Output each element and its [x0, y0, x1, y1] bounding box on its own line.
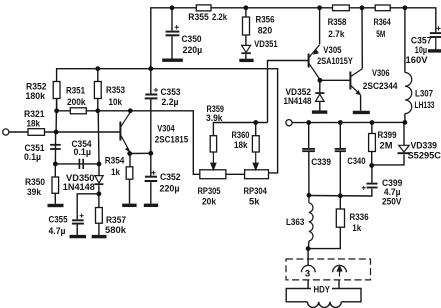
- wire R336 bottom to L363 bottom: [308, 227, 340, 248]
- HDY pin 3 arc: [301, 265, 315, 272]
- wire C399 top lead: [371, 165, 373, 182]
- svg-text:C339: C339: [311, 157, 331, 168]
- svg-text:39k: 39k: [27, 187, 42, 198]
- wire bias rail y=68.7: [57, 69, 278, 173]
- wire flyback row y=122.4: [292, 121, 405, 123]
- diode VD351: [241, 45, 251, 53]
- svg-text:2SA1015Y: 2SA1015Y: [317, 56, 353, 67]
- svg-text:R351: R351: [66, 86, 86, 97]
- wire R354 to ground: [129, 179, 131, 203]
- wire R399 top lead: [371, 123, 373, 134]
- wire C350 to ground: [171, 36, 173, 59]
- svg-text:V304: V304: [157, 123, 175, 134]
- svg-text:180k: 180k: [26, 91, 46, 102]
- svg-text:5k: 5k: [249, 197, 260, 208]
- svg-text:HDY: HDY: [314, 285, 331, 296]
- wire RP305-RP304 link: [226, 173, 245, 175]
- svg-text:C350: C350: [182, 34, 202, 45]
- resistor R357: [96, 208, 103, 224]
- resistor R352: [53, 82, 60, 99]
- resistor R359: [210, 136, 216, 152]
- wire R399 bottom lead: [371, 152, 373, 166]
- wire V306 collector to rail: [361, 8, 363, 69]
- node terminal flyback row: [286, 120, 292, 126]
- svg-text:18k: 18k: [234, 140, 248, 151]
- svg-text:C355: C355: [49, 215, 69, 226]
- svg-text:L363: L363: [286, 217, 304, 228]
- ground R350: [48, 204, 64, 207]
- svg-text:5M: 5M: [376, 29, 385, 40]
- ground VD351: [239, 59, 253, 62]
- resistor R399: [369, 134, 376, 152]
- svg-text:2SC2344: 2SC2344: [363, 81, 398, 92]
- capacitor C353: [145, 95, 158, 99]
- svg-text:1k: 1k: [352, 223, 362, 234]
- resistor R355: [196, 5, 211, 11]
- resistor R356: [243, 17, 250, 35]
- resistor R358: [333, 5, 350, 11]
- wire R357 column: [98, 194, 100, 208]
- wire R350 column: [54, 164, 56, 204]
- wire R360 top lead: [255, 123, 257, 136]
- ground V306 emitter: [353, 111, 370, 114]
- svg-text:580k: 580k: [105, 225, 127, 236]
- capacitor C357: [430, 33, 441, 37]
- wire collector rail y=110.8 to RP305: [57, 99, 200, 175]
- wire R359 top from bias node row y=122.5: [213, 123, 267, 136]
- wire VD352 top lead: [319, 80, 321, 92]
- svg-text:160V: 160V: [406, 55, 429, 66]
- wire C399 bottom corner: [309, 189, 372, 196]
- wire VD339 top lead: [403, 122, 405, 145]
- svg-text:18k: 18k: [27, 119, 41, 130]
- wire input to V304 base: [9, 131, 28, 133]
- capacitor C339: [302, 149, 315, 151]
- HDY pin 1 arrow: [337, 266, 341, 277]
- svg-text:220µ: 220µ: [160, 184, 180, 195]
- svg-text:LH133: LH133: [415, 100, 435, 111]
- svg-text:0.1µ: 0.1µ: [24, 152, 41, 163]
- HDY pin 1 arc: [333, 265, 347, 272]
- capacitor C350: [166, 32, 180, 36]
- svg-text:V306: V306: [372, 68, 390, 79]
- ground C357: [428, 49, 441, 52]
- svg-text:2.2k: 2.2k: [212, 12, 228, 23]
- svg-text:820: 820: [258, 26, 273, 37]
- transistor V305 (PNP): [309, 45, 320, 80]
- ground R354: [122, 204, 136, 207]
- diode VD352 cathode-up: [315, 93, 324, 101]
- resistor R354: [126, 167, 133, 179]
- wire node to C355: [77, 194, 99, 220]
- potentiometer RP304 wiper arrow from R360: [253, 152, 258, 170]
- ground VD352: [312, 110, 327, 113]
- wire VD351 to ground: [245, 54, 247, 59]
- input terminal: [3, 129, 9, 135]
- svg-text:1k: 1k: [111, 167, 121, 178]
- transistor V304: [120, 112, 130, 152]
- wire R356 to VD351: [245, 35, 247, 45]
- capacitor C354: [79, 159, 83, 169]
- resistor R350: [52, 177, 59, 193]
- wire R352 column lower: [55, 111, 57, 132]
- wire L363 to HDY pin3: [307, 249, 309, 266]
- svg-text:R399: R399: [378, 130, 397, 141]
- svg-text:200k: 200k: [67, 97, 86, 108]
- svg-text:VD351: VD351: [254, 39, 278, 50]
- svg-text:R355: R355: [188, 12, 209, 23]
- wire V305 emitter to rail: [319, 8, 321, 44]
- HDY yoke body: [286, 289, 361, 308]
- wire R354 top lead: [129, 154, 131, 167]
- wire L363 top lead: [308, 195, 310, 203]
- wire C352 column: [150, 153, 152, 176]
- resistor R336: [336, 209, 344, 227]
- wire V304 emitter row: [130, 152, 151, 154]
- wire C340 top lead: [339, 123, 341, 149]
- potentiometer RP304 body: [245, 170, 269, 179]
- wire C339 top lead: [308, 123, 310, 149]
- inductor L363: [309, 203, 313, 241]
- svg-text:10k: 10k: [109, 97, 123, 108]
- wire R357 to ground: [98, 223, 100, 236]
- svg-text:L307: L307: [415, 89, 433, 100]
- ground C355: [70, 235, 87, 238]
- wire C340 bottom lead: [339, 152, 341, 196]
- HDY connector dashed box: [286, 259, 371, 280]
- wire L363 bottom lead: [307, 241, 310, 249]
- svg-text:1N4148: 1N4148: [63, 182, 96, 193]
- svg-text:2.7k: 2.7k: [328, 29, 345, 40]
- svg-text:220µ: 220µ: [183, 45, 203, 56]
- svg-text:R354: R354: [105, 155, 125, 166]
- wire C354 row y=163.9: [55, 163, 99, 165]
- svg-text:2.2µ: 2.2µ: [162, 97, 179, 108]
- ground C350: [162, 59, 183, 62]
- wire C357 to ground: [435, 37, 437, 50]
- wire R353 node down to C354-VD350 node: [97, 111, 100, 164]
- wire V306 emitter to ground: [360, 95, 362, 111]
- diode VD350: [95, 176, 104, 185]
- wire VD339 bottom to R399 node: [372, 155, 404, 165]
- wire L307 top lead: [404, 8, 406, 73]
- ground C352: [144, 204, 158, 207]
- svg-text:R353: R353: [106, 85, 125, 96]
- wire VD352 to ground: [319, 102, 321, 111]
- wire R353 column upper: [97, 69, 99, 111]
- svg-text:20k: 20k: [202, 197, 217, 208]
- potentiometer RP305 body: [200, 170, 226, 179]
- svg-text:250V: 250V: [382, 197, 402, 208]
- svg-text:2SC1815: 2SC1815: [155, 135, 189, 146]
- wire C353 column upper: [150, 69, 152, 94]
- svg-text:R336: R336: [349, 212, 368, 223]
- wire C351 column: [54, 132, 56, 164]
- capacitor C355: [72, 220, 84, 223]
- wire VD350 to node: [98, 185, 100, 193]
- svg-text:2M: 2M: [380, 141, 393, 152]
- capacitor C340: [335, 149, 346, 151]
- diode VD339: [398, 145, 411, 153]
- wire R336 top lead: [339, 196, 341, 209]
- capacitor C352: [145, 177, 158, 181]
- svg-text:V305: V305: [323, 45, 342, 56]
- inductor L307: [405, 73, 412, 114]
- resistor R321: [28, 129, 45, 136]
- wire V305 collector node to V306 base: [320, 79, 350, 81]
- wire R356 column: [245, 8, 247, 17]
- resistor R353: [94, 82, 101, 99]
- ground R357: [92, 235, 107, 238]
- svg-text:C352: C352: [160, 172, 181, 183]
- resistor R364: [375, 5, 390, 11]
- svg-text:0.1µ: 0.1µ: [74, 147, 92, 158]
- wire C339 to L363: [308, 152, 310, 196]
- svg-text:R356: R356: [256, 15, 275, 26]
- wire HDY pin1 to body: [338, 280, 340, 289]
- wire top supply rail y=7.8: [151, 8, 436, 69]
- transistor V306 (NPN): [350, 69, 362, 96]
- potentiometer RP305 wiper arrow from R359: [211, 152, 216, 170]
- svg-text:R364: R364: [374, 17, 392, 28]
- wire VD350 column: [98, 164, 100, 175]
- wire R321 to base bar: [45, 131, 121, 133]
- wire C350 column: [171, 8, 173, 31]
- svg-text:S5295C: S5295C: [408, 150, 441, 161]
- svg-text:3: 3: [305, 268, 310, 279]
- wire HDY pin3 to body: [307, 280, 309, 289]
- svg-text:1N4148: 1N4148: [284, 96, 313, 107]
- svg-text:R358: R358: [328, 17, 347, 28]
- svg-text:C340: C340: [347, 156, 365, 167]
- capacitor C351: [50, 145, 61, 149]
- svg-text:3.9k: 3.9k: [206, 113, 223, 124]
- wire C352 to ground: [150, 182, 152, 204]
- wire C353 column lower crossing collector rail: [150, 99, 152, 153]
- wire V305 base column: [268, 61, 309, 123]
- svg-text:4.7µ: 4.7µ: [49, 226, 66, 237]
- wire C355 to ground: [76, 224, 78, 236]
- wire L307 bottom lead: [404, 114, 406, 123]
- resistor R351: [70, 108, 86, 114]
- capacitor C399: [367, 184, 378, 188]
- resistor R360: [252, 136, 259, 152]
